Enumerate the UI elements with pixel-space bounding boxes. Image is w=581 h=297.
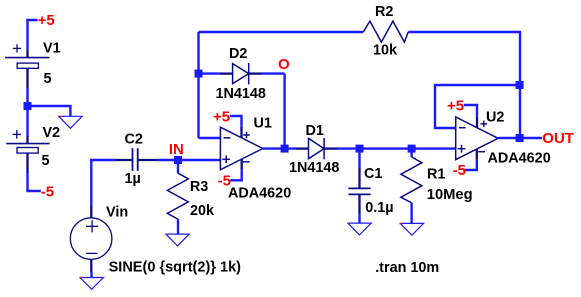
wire xyxy=(157,159,178,161)
wire xyxy=(230,170,241,181)
svg-text:-5: -5 xyxy=(41,184,54,201)
wire xyxy=(178,159,220,161)
wire xyxy=(337,147,412,149)
ground corner dot xyxy=(79,277,81,279)
capacitor C1 xyxy=(358,168,360,215)
wire xyxy=(262,72,285,74)
svg-text:5: 5 xyxy=(44,71,52,87)
svg-text:C1: C1 xyxy=(364,166,382,182)
junction node feedback top xyxy=(516,81,524,89)
wire xyxy=(177,219,179,234)
wire xyxy=(28,173,41,191)
svg-text:1N4148: 1N4148 xyxy=(289,160,339,176)
wire xyxy=(358,214,360,223)
svg-text:OUT: OUT xyxy=(542,130,574,147)
wire xyxy=(520,137,542,139)
svg-text:10k: 10k xyxy=(373,42,398,58)
svg-text:+5: +5 xyxy=(447,97,464,114)
wire xyxy=(408,32,520,138)
ground corner dot xyxy=(399,223,401,225)
junction node C1 top xyxy=(356,145,364,153)
svg-text:-5: -5 xyxy=(218,172,231,189)
svg-text:C2: C2 xyxy=(125,132,143,148)
svg-text:Vin: Vin xyxy=(106,205,128,221)
diode D2 xyxy=(220,63,262,84)
wire xyxy=(28,106,71,116)
svg-text:D2: D2 xyxy=(229,46,247,62)
op-amp U2 ADA4620 xyxy=(456,117,498,160)
ground xyxy=(59,116,82,128)
wire xyxy=(177,160,179,173)
svg-text:-5: -5 xyxy=(453,162,466,179)
svg-text:D1: D1 xyxy=(306,123,324,139)
junction node IN xyxy=(174,156,182,164)
wire xyxy=(26,88,28,106)
wire xyxy=(26,106,28,136)
diode D1 xyxy=(296,138,337,159)
svg-text:U1: U1 xyxy=(254,116,272,132)
resistor R3 xyxy=(167,173,188,219)
svg-text:1µ: 1µ xyxy=(125,171,141,187)
svg-text:IN: IN xyxy=(169,141,184,158)
svg-text:+5: +5 xyxy=(213,108,230,125)
svg-text:U2: U2 xyxy=(486,110,504,126)
wire xyxy=(90,272,93,278)
wire xyxy=(410,149,412,157)
ground xyxy=(166,234,189,246)
svg-text:O: O xyxy=(278,56,290,73)
wire xyxy=(91,160,116,206)
wire xyxy=(197,32,199,138)
wire xyxy=(412,147,456,149)
resistor R2 xyxy=(363,21,408,42)
wire xyxy=(28,20,38,50)
svg-text:SINE(0 {sqrt(2)} 1k): SINE(0 {sqrt(2)} 1k) xyxy=(109,259,242,275)
wire xyxy=(199,72,220,74)
junction node U1 out xyxy=(281,145,289,153)
ground corner dot xyxy=(347,222,349,224)
svg-text:5: 5 xyxy=(42,153,50,169)
wire xyxy=(283,74,285,149)
svg-text:R1: R1 xyxy=(427,167,445,183)
svg-text:20k: 20k xyxy=(190,203,215,219)
ground xyxy=(348,223,371,235)
wire xyxy=(464,105,477,117)
op-amp U1 ADA4620 xyxy=(220,127,262,170)
junction node R1 top xyxy=(408,145,416,153)
svg-text:R3: R3 xyxy=(190,179,208,195)
wire xyxy=(230,116,242,127)
wire xyxy=(410,203,412,224)
ground corner dot xyxy=(165,233,167,235)
svg-text:0.1µ: 0.1µ xyxy=(365,200,393,216)
junction node D2 anode xyxy=(195,70,203,78)
svg-text:10Meg: 10Meg xyxy=(427,187,473,203)
ground xyxy=(400,223,423,235)
svg-text:V1: V1 xyxy=(43,41,61,57)
wire xyxy=(263,147,296,149)
junction node OUT xyxy=(516,134,524,142)
junction xyxy=(24,102,32,110)
svg-text:ADA4620: ADA4620 xyxy=(228,186,291,202)
wire xyxy=(358,149,360,168)
wire xyxy=(465,160,477,170)
svg-text:+5: +5 xyxy=(38,12,55,29)
wire xyxy=(498,137,520,139)
wire xyxy=(199,31,364,33)
voltage source V2 (battery) xyxy=(6,130,49,173)
voltage source Vin (sine) xyxy=(70,206,112,272)
svg-text:ADA4620: ADA4620 xyxy=(488,151,551,167)
voltage source V1 (battery) xyxy=(5,44,49,88)
svg-text:V2: V2 xyxy=(43,125,61,141)
wire xyxy=(435,85,520,128)
ground xyxy=(80,278,103,290)
svg-text:R2: R2 xyxy=(375,4,393,20)
resistor R1 xyxy=(401,157,422,203)
svg-text:1N4148: 1N4148 xyxy=(216,86,266,102)
ground corner dot xyxy=(58,116,60,118)
wire xyxy=(199,137,221,139)
svg-text:.tran 10m: .tran 10m xyxy=(375,260,439,276)
capacitor C2 xyxy=(116,159,157,161)
